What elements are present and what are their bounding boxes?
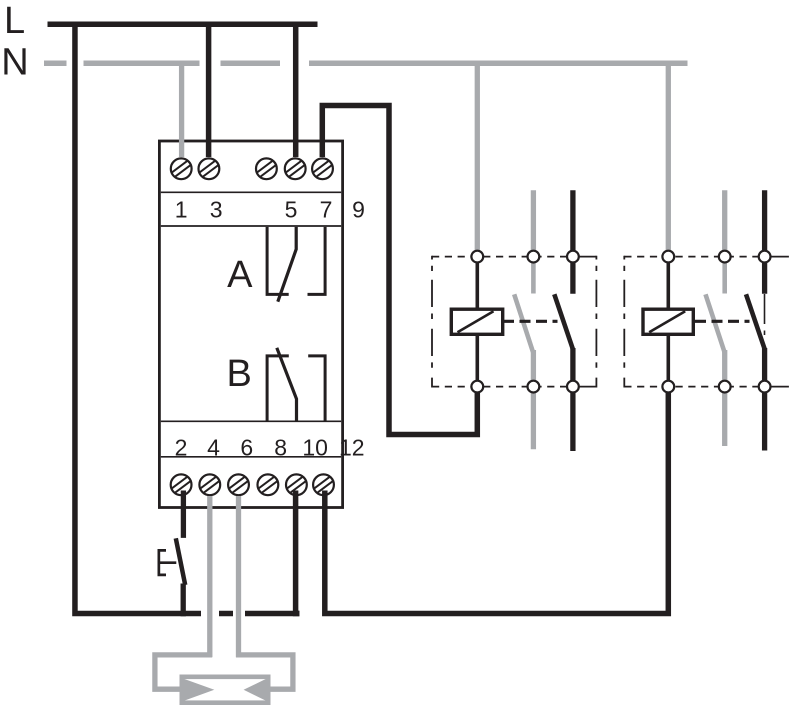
svg-text:12: 12	[339, 435, 365, 461]
svg-text:8: 8	[274, 435, 287, 461]
svg-text:2: 2	[175, 435, 188, 461]
svg-text:4: 4	[207, 435, 220, 461]
svg-text:1: 1	[175, 197, 188, 223]
svg-text:B: B	[227, 353, 252, 395]
svg-text:L: L	[4, 0, 25, 42]
svg-text:A: A	[227, 254, 253, 296]
svg-text:3: 3	[210, 197, 223, 223]
svg-text:N: N	[1, 42, 28, 84]
svg-text:6: 6	[240, 435, 253, 461]
svg-text:7: 7	[320, 197, 333, 223]
svg-text:10: 10	[302, 435, 328, 461]
svg-text:5: 5	[285, 197, 298, 223]
svg-text:9: 9	[352, 197, 365, 223]
